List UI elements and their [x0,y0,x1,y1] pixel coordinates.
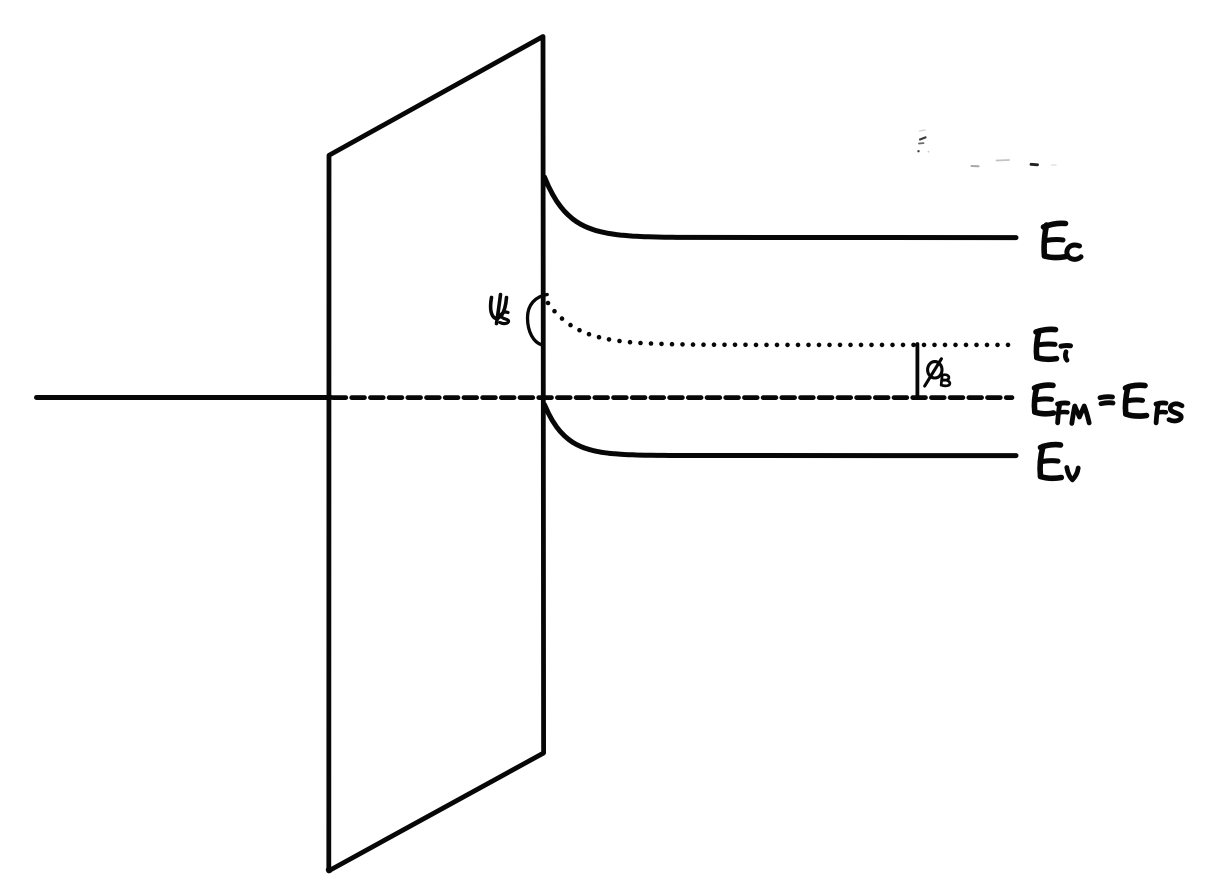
label E_C [1044,223,1082,259]
phi_B tick [916,344,920,396]
Fermi level dashed line E_FM = E_FS [333,395,1012,400]
label E_i [1036,329,1071,360]
psi_s label [491,295,509,324]
wire metal lead [37,395,332,400]
psi_s arc bracket [527,295,547,345]
label E_v [1040,445,1078,480]
oxide barrier parallelogram [326,37,544,874]
E_v valence band curve [545,405,1017,456]
E_C conduction band curve [545,177,1017,238]
label E_FM = E_FS [1034,385,1182,423]
faint erased pencil marks top right [917,130,1056,166]
phi_B label [925,359,950,386]
E_i intrinsic level dotted curve [546,301,1011,348]
